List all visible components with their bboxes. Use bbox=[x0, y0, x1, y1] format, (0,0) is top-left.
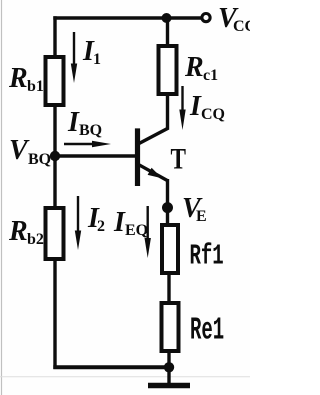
wire top rail bbox=[53, 16, 201, 19]
svg-text:b1: b1 bbox=[27, 78, 44, 95]
resistor Rf1 bbox=[162, 225, 178, 273]
wire collector vertical lower bbox=[166, 93, 169, 130]
collector diagonal bbox=[139, 128, 168, 143]
scan edge artifact bbox=[0, 376, 250, 378]
arrow I1 bbox=[71, 32, 77, 83]
arrow IEQ bbox=[145, 206, 151, 258]
wire bottom rail bbox=[53, 365, 170, 369]
svg-text:BQ: BQ bbox=[28, 151, 51, 168]
terminal VCC bbox=[202, 14, 210, 22]
wire below Re1 bbox=[167, 351, 170, 369]
svg-text:c1: c1 bbox=[203, 67, 218, 84]
svg-text:CQ: CQ bbox=[201, 106, 225, 123]
svg-text:2: 2 bbox=[97, 218, 105, 235]
svg-text:BQ: BQ bbox=[79, 122, 102, 139]
scan edge artifact bbox=[1, 0, 3, 395]
wire between Rf1 and Re1 bbox=[167, 272, 170, 303]
node junction top bbox=[162, 13, 172, 23]
svg-text:EQ: EQ bbox=[125, 222, 148, 239]
svg-text:R: R bbox=[8, 63, 28, 94]
svg-text:R: R bbox=[8, 216, 28, 247]
arrow IBQ bbox=[64, 141, 111, 147]
svg-text:CC: CC bbox=[233, 18, 250, 35]
wire emitter vertical bbox=[166, 179, 169, 226]
svg-text:b2: b2 bbox=[27, 231, 44, 248]
emitter arrowhead bbox=[148, 168, 162, 179]
svg-text:V: V bbox=[9, 135, 30, 166]
node VE bbox=[162, 202, 173, 213]
resistor Rb2 bbox=[46, 208, 64, 259]
resistor Re1 bbox=[162, 303, 179, 351]
resistor Rc1 bbox=[159, 46, 177, 94]
arrow I2 bbox=[75, 196, 81, 250]
wire base bbox=[55, 154, 135, 157]
node VBQ bbox=[50, 151, 60, 161]
emitter diagonal bbox=[139, 165, 168, 181]
resistor Rb1 bbox=[46, 57, 64, 105]
transistor T bbox=[138, 128, 169, 186]
svg-text:Rf1: Rf1 bbox=[190, 241, 224, 273]
svg-text:T: T bbox=[171, 142, 187, 175]
svg-text:R: R bbox=[184, 52, 204, 83]
base bar bbox=[135, 128, 140, 186]
arrow ICQ bbox=[179, 86, 185, 130]
svg-text:Re1: Re1 bbox=[190, 312, 224, 348]
svg-text:E: E bbox=[196, 208, 207, 225]
wire collector vertical upper bbox=[166, 18, 169, 46]
node bottom junction bbox=[164, 362, 174, 372]
svg-text:1: 1 bbox=[93, 51, 101, 68]
wire left vertical bbox=[53, 16, 56, 369]
ground bbox=[148, 367, 190, 386]
